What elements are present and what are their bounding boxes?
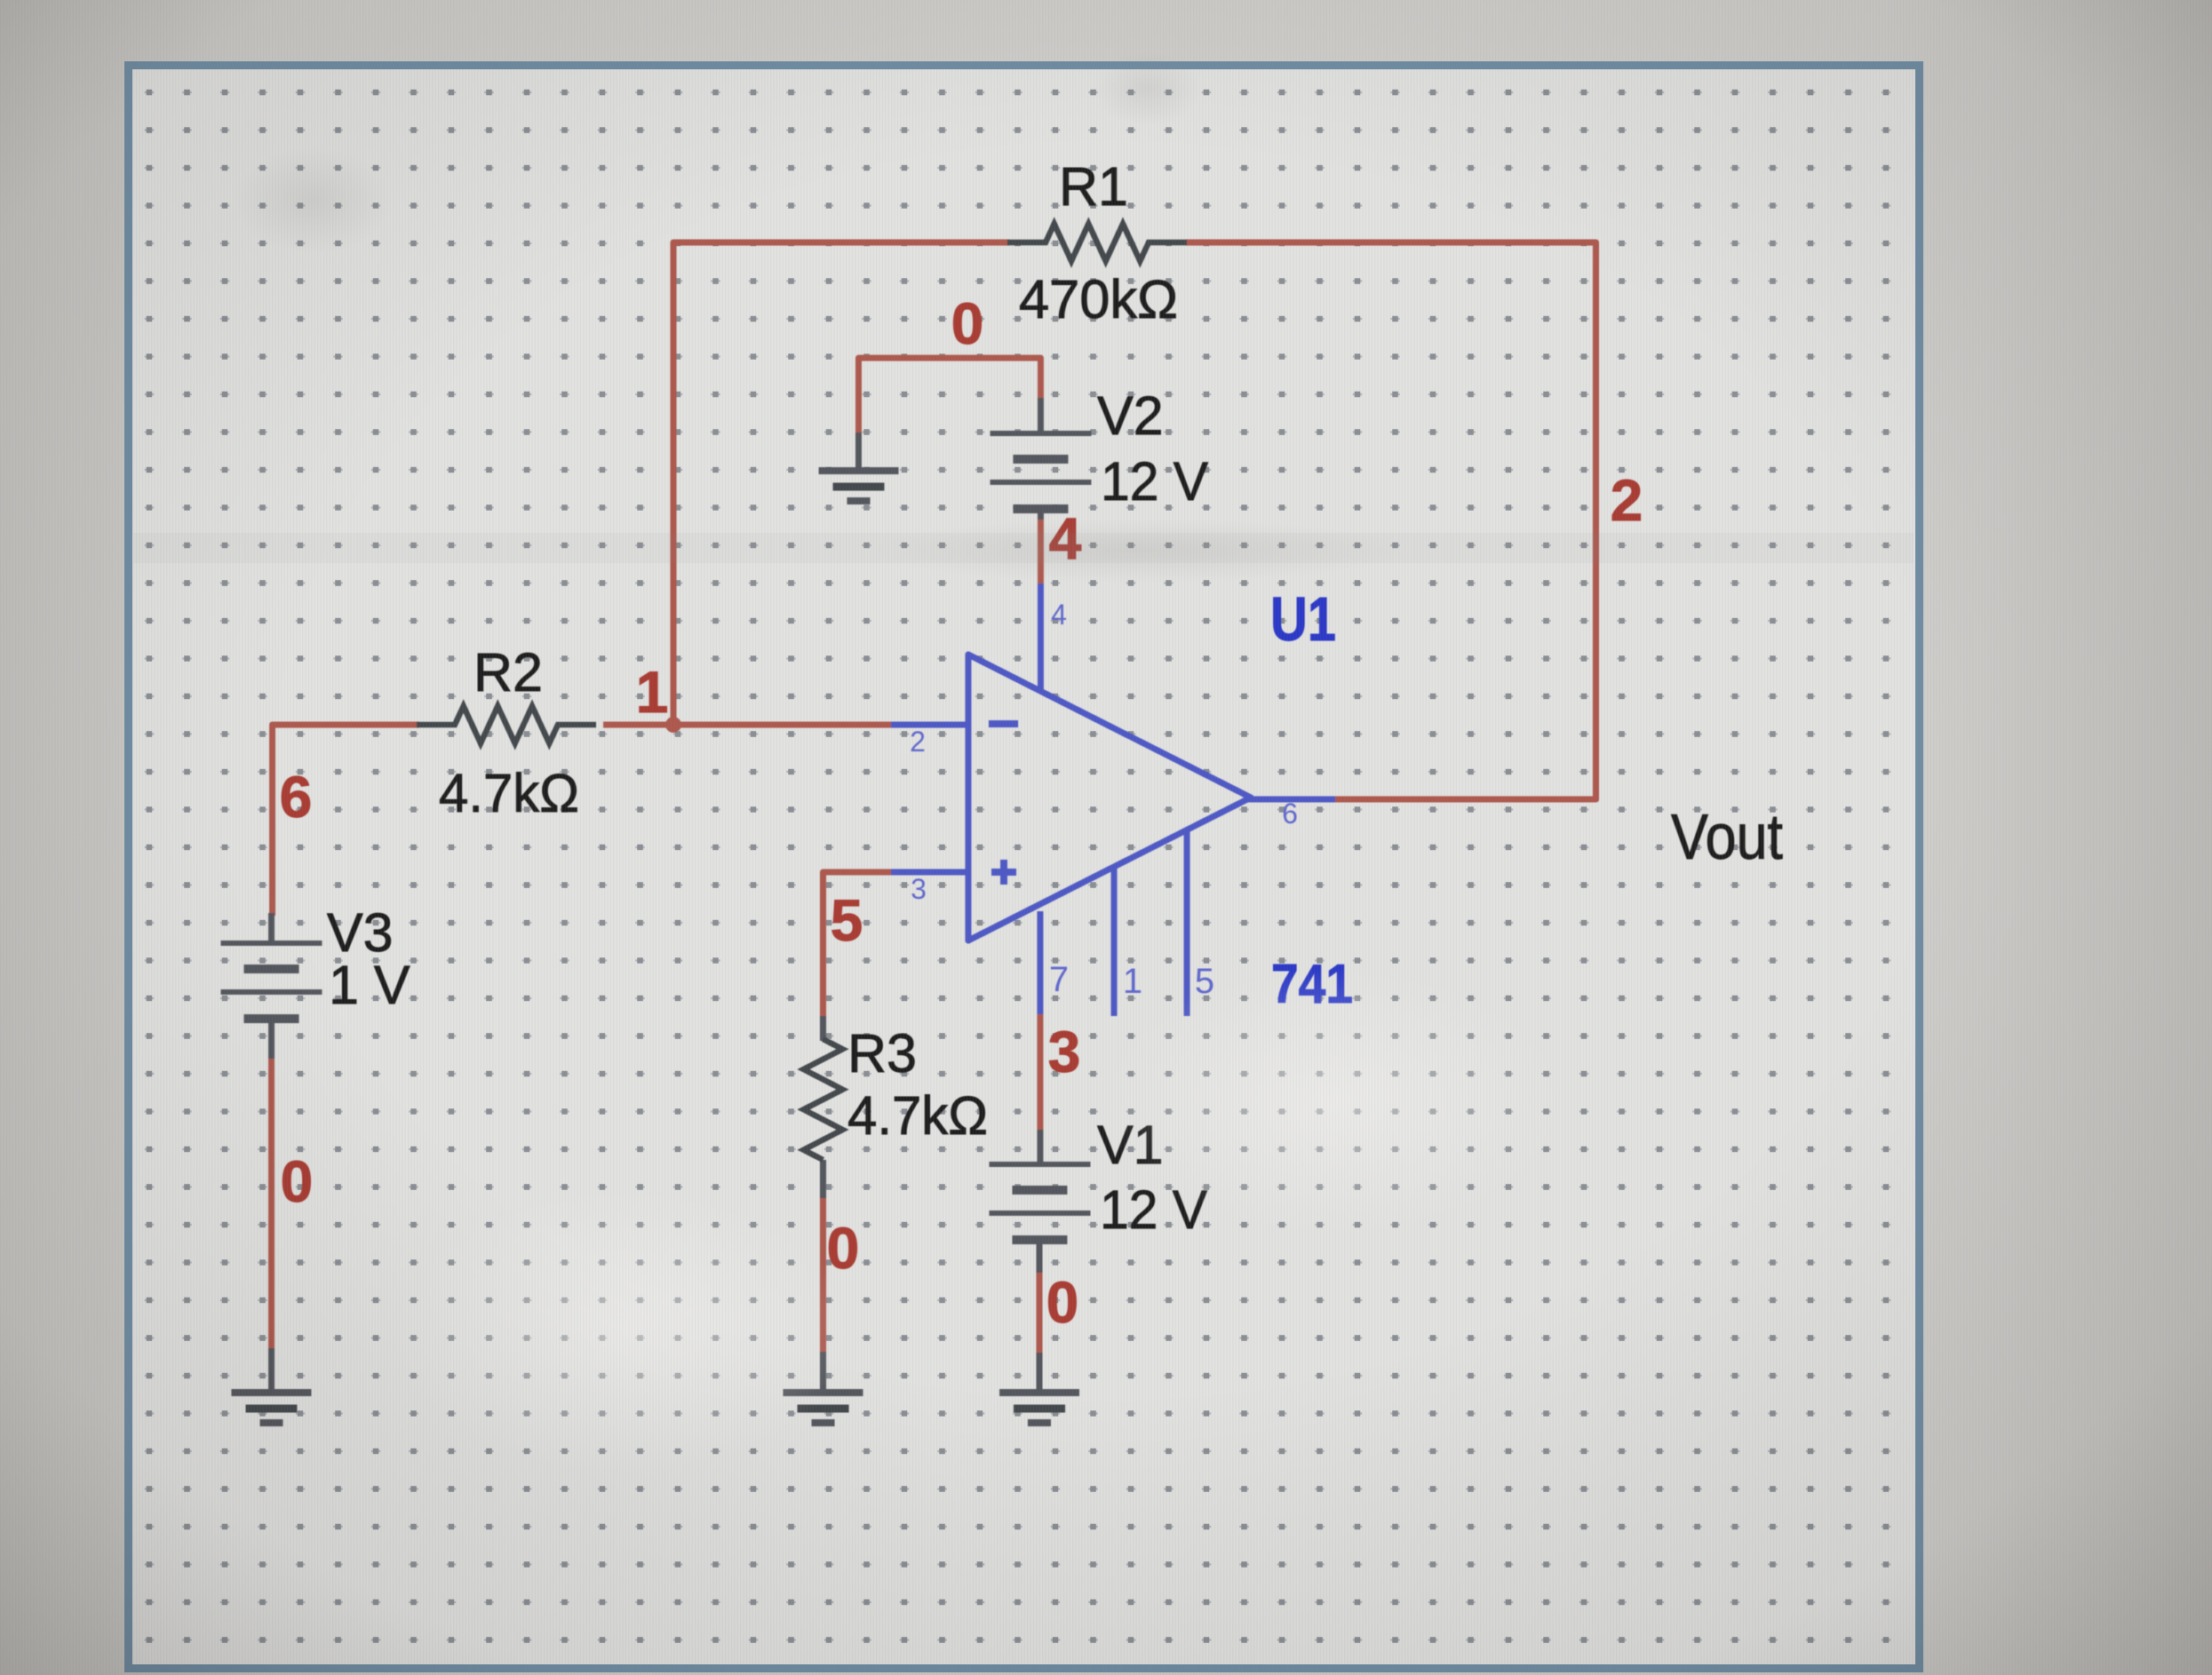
op-amp non-inverting input stub	[891, 869, 968, 876]
lead V2 ground side	[855, 433, 862, 471]
lead V1 top	[1038, 1130, 1044, 1164]
lead R3 bottom	[820, 1160, 826, 1198]
lead V2 top	[1038, 398, 1044, 434]
battery V2	[991, 431, 1092, 436]
resistor R1	[1007, 224, 1187, 261]
lead V1 bottom	[1037, 1240, 1043, 1273]
resistor R2	[417, 706, 596, 743]
wire net6: V3 to R2 left	[273, 725, 420, 916]
ground (below V1)	[999, 1389, 1079, 1396]
lead V3 bottom	[268, 1019, 275, 1059]
op-amp pin 5 stub (bottom)	[1184, 831, 1190, 1016]
op-amp output stub pin 6	[1248, 797, 1335, 803]
battery V1	[990, 1162, 1091, 1167]
wire net0: V3 minus terminal down to ground	[268, 1057, 275, 1351]
wire net5: op-amp non-inverting input left and down to R3	[824, 872, 895, 1019]
ground (below V3)	[232, 1389, 312, 1396]
lead V2 bottom	[1038, 509, 1044, 520]
lead R3 ground	[820, 1352, 826, 1394]
junction node 1	[665, 717, 681, 733]
lead V3 ground	[268, 1348, 275, 1394]
wire net3: op-amp pin 7 down to V1 plus terminal	[1038, 1012, 1044, 1132]
lead V3 top	[268, 913, 275, 945]
wire net1: R2 right to op-amp inverting input	[603, 722, 894, 728]
battery V3	[221, 941, 322, 946]
resistor R3	[804, 1039, 843, 1160]
op-amp inverting input stub	[891, 722, 968, 728]
lead V1 ground	[1037, 1353, 1043, 1393]
op-amp U1 (741) triangle	[968, 655, 1251, 941]
op-amp pin 7 stub (bottom)	[1038, 911, 1044, 1014]
wire net2 feedback: R1 right, down, to op-amp output	[1186, 242, 1596, 799]
wire net0: V1 minus terminal down to ground	[1037, 1270, 1043, 1355]
op-amp plus mark	[991, 860, 1016, 885]
ground (V2 positive rail reference)	[819, 467, 899, 474]
wire net4: V2 minus terminal down to op-amp pin 4	[1038, 516, 1044, 586]
wire net1 feedback: node1 up and across to R1	[673, 242, 1009, 728]
lead R3 top	[820, 1016, 826, 1041]
wire net0: R3 bottom down to ground	[820, 1195, 826, 1354]
op-amp minus mark	[989, 720, 1018, 727]
op-amp pin 4 stub (top)	[1038, 583, 1044, 693]
wire net0: ground to V2 plus terminal	[859, 358, 1041, 435]
ground (below R3)	[784, 1389, 863, 1396]
op-amp pin 1 stub (bottom)	[1111, 868, 1118, 1016]
